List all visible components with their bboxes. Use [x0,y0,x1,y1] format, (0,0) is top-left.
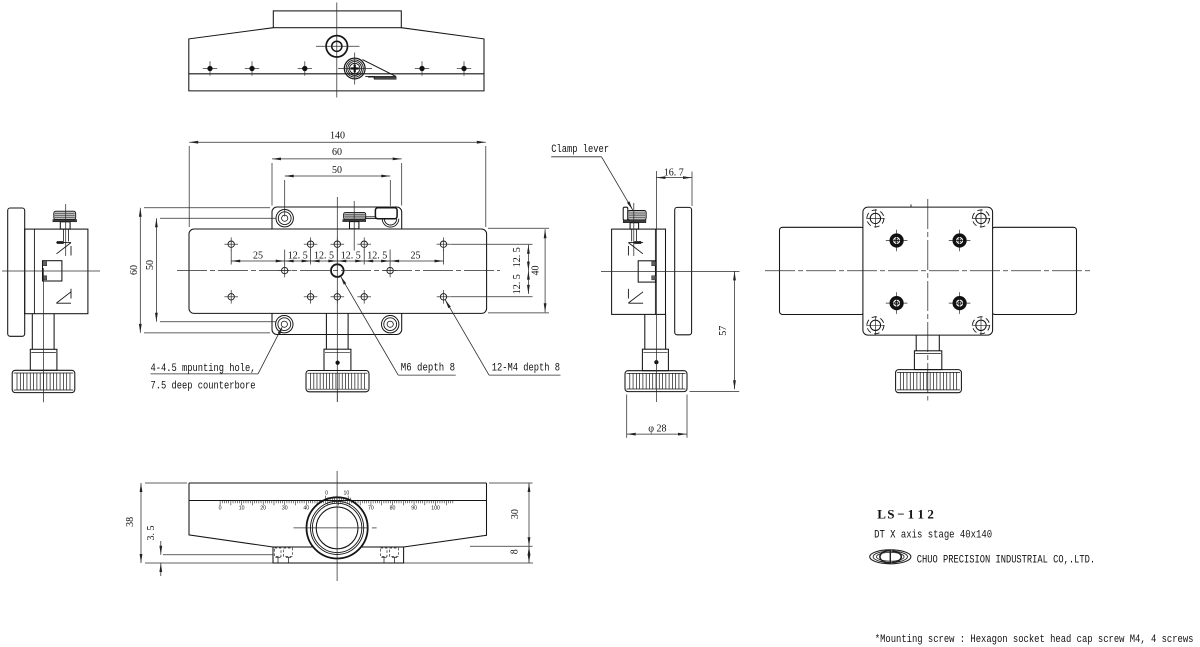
svg-text:CHUO PRECISION INDUSTRIAL CO,.: CHUO PRECISION INDUSTRIAL CO,.LTD. [917,554,1095,566]
mid view: clamp base bar [623,220,646,223]
mid view: clamp screw shaft [631,229,633,241]
left view: upper spring zigzag [56,242,71,244]
front view: dial inner circles [311,501,364,554]
front view: ruler ticks [219,501,221,506]
front view: table outline [189,483,487,547]
mid view: coupling [642,349,668,371]
mid view: horizontal centerline [601,270,740,272]
svg-text:*Mounting screw : Hexagon sock: *Mounting screw : Hexagon socket head ca… [875,634,1194,646]
svg-text:L: L [877,506,886,521]
top view: center vertical line [336,3,338,98]
svg-text:70: 70 [368,506,374,512]
left view: clamp centerline [65,204,67,256]
front view: clamp screw details dashed [275,548,282,557]
svg-text:2: 2 [927,506,934,521]
front view: baseline extension long [145,562,533,564]
svg-text:60: 60 [129,265,140,275]
svg-text:12-M4 depth 8: 12-M4 depth 8 [492,363,560,375]
plan view: clamp lever head [344,212,366,219]
left view: knob centerline [42,268,44,402]
left view: clamp stem [60,222,70,229]
bottom view: knurled knob [896,370,962,393]
mid view: table plate [675,207,692,334]
svg-text:25: 25 [253,250,263,261]
mid view: upper spring zigzag [628,242,643,244]
svg-text:40: 40 [303,506,309,512]
svg-text:DT X axis stage 40x140: DT X axis stage 40x140 [874,530,992,542]
top view: raised table block [273,11,401,28]
svg-text:12. 5: 12. 5 [512,274,523,294]
bottom view: corner counterbore holes [866,217,884,219]
plan view: moving table (overlaps base) [189,229,487,313]
svg-text:100: 100 [431,506,440,512]
top view: mounting hole dots [203,68,217,70]
plan view: vertical centerline [336,197,338,402]
plan view: horizontal centerline [177,270,500,272]
front view: vernier ticks [325,496,327,501]
logo: company mark [870,550,911,564]
bottom view: shaft [915,335,917,351]
svg-text:25: 25 [411,250,421,261]
svg-text:20: 20 [260,506,266,512]
svg-text:7.5 deep counterbore: 7.5 deep counterbore [151,380,256,392]
svg-text:1: 1 [918,506,925,521]
plan view: central M6 hole [331,264,344,277]
svg-text:12. 5: 12. 5 [512,247,523,267]
plan view: knurled knob [306,371,369,392]
bottom view: M4 socket screws [886,240,908,242]
svg-text:38: 38 [125,517,136,527]
plan view: knob coupling [324,349,351,370]
left view: knurled knob [12,370,75,392]
svg-text:0: 0 [325,490,328,496]
left view: coupling [30,349,57,370]
mid view: clamp centerline [633,203,635,256]
svg-text:S: S [887,506,894,521]
svg-text:16. 7: 16. 7 [664,167,684,178]
bottom view: coupling [914,351,941,370]
top view: clamp lever arm [362,60,396,77]
plan view: mid row holes [282,267,288,273]
plan view: clamp centerline [353,201,355,251]
svg-text:30: 30 [510,509,521,519]
mid view: vertical centerline [655,171,657,402]
plan view: fixed base plate [272,207,402,335]
mid view: clamp head [628,211,646,220]
top view: body split line [189,73,484,75]
mid view: clamp stem [630,223,639,229]
left view: horizontal centerline [2,270,100,272]
svg-text:50: 50 [332,165,342,176]
left view: clamp head [54,211,76,219]
bottom view: vertical centerline [927,199,929,401]
svg-text:1: 1 [908,506,915,521]
front view: base block [273,547,404,563]
svg-text:φ 28: φ 28 [648,424,666,435]
front view: dial crosshairs [294,527,369,529]
svg-text:90: 90 [411,506,417,512]
left view: lower spring zigzag [56,302,71,304]
left view: clamp screw shaft [63,229,65,241]
bottom view: base square [863,207,993,335]
mid view: slider block [638,261,656,282]
svg-text:12. 5: 12. 5 [314,250,334,261]
plan view: coupling set screw [336,361,340,365]
mid view: shaft [644,314,646,349]
left view: table plate [8,208,25,336]
bottom view: right rail [992,227,1077,314]
plan view: clamp lever base bar [343,220,366,222]
svg-text:8: 8 [509,549,520,554]
svg-text:57: 57 [718,326,729,336]
svg-text:M6 depth 8: M6 depth 8 [401,363,455,375]
svg-text:140: 140 [330,131,345,142]
left view: clamp base bar [53,220,77,222]
front view: dial outer circle [307,497,368,558]
mid view: body block [612,229,666,314]
svg-text:80: 80 [390,506,396,512]
svg-text:50: 50 [145,260,156,270]
left view: body block [25,229,88,314]
svg-text:4-4.5 mpunting hole,: 4-4.5 mpunting hole, [151,363,256,375]
mid view: lower spring zigzag [628,302,643,304]
plan view: clamp lever stem [350,222,359,229]
left view: slider block [43,261,62,281]
top view: body outline [189,28,484,91]
svg-text:12. 5: 12. 5 [341,250,361,261]
svg-text:12. 5: 12. 5 [288,250,308,261]
mid view: clamp lever tab [623,207,628,220]
plan view: table holes top row [228,241,234,247]
plan view: clamp pad (top right) [375,208,397,219]
plan view: clamp lever link arm [366,217,376,219]
svg-text:10: 10 [239,506,245,512]
svg-text:40: 40 [531,266,542,276]
bottom view: left rail [780,227,865,314]
svg-text:12. 5: 12. 5 [367,250,387,261]
svg-text:0: 0 [219,506,222,512]
top view: knob circle [326,36,347,57]
left view: shaft [31,314,33,350]
svg-text:10: 10 [344,490,350,496]
mid view: knurled knob [625,371,687,392]
plan view: base corner screw top-left [276,210,293,227]
plan view: knob shaft [325,313,327,349]
top view: clamp boss circles [344,58,365,79]
plan view: table holes bottom row [228,294,234,300]
svg-text:Clamp lever: Clamp lever [551,144,609,156]
dim row 25/12.5 [231,260,285,262]
bottom view: horizontal centerline [765,270,1092,272]
svg-text:3. 5: 3. 5 [146,526,157,541]
svg-text:30: 30 [282,506,288,512]
svg-text:60: 60 [332,147,342,158]
svg-text:−: − [897,506,904,521]
front view: ruler line [189,500,487,502]
